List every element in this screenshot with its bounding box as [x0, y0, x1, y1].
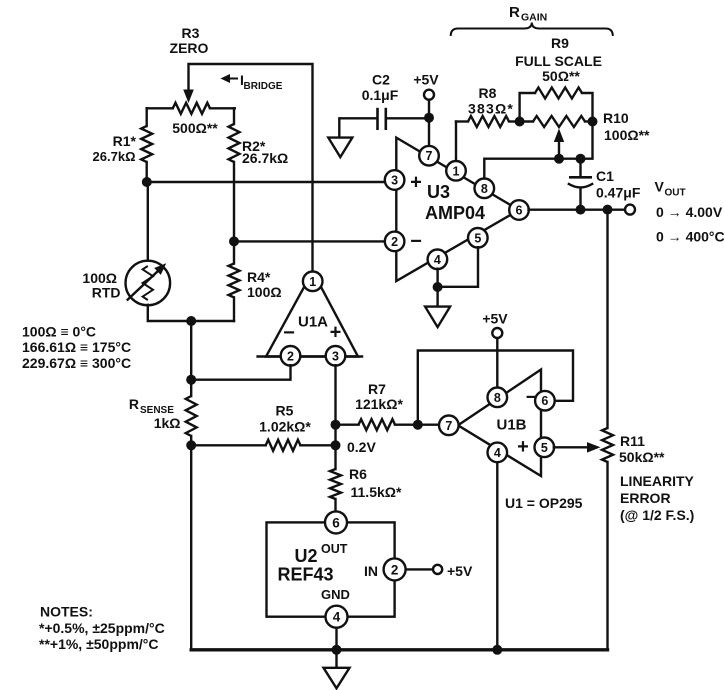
- junction bridge bottom: [186, 316, 196, 326]
- svg-text:R5: R5: [276, 403, 294, 419]
- wire REF43 pin4 to rail: [335, 628, 337, 648]
- wire U1B pin5 to R11 wiper: [554, 446, 589, 448]
- svg-text:4: 4: [494, 446, 501, 460]
- I_BRIDGE arrow: [224, 78, 237, 80]
- svg-text:BRIDGE: BRIDGE: [244, 81, 283, 92]
- junction rail/REF43 gnd: [332, 645, 342, 655]
- svg-text:121kΩ*: 121kΩ*: [355, 396, 403, 412]
- svg-text:8: 8: [481, 182, 488, 196]
- svg-text:2: 2: [287, 349, 294, 363]
- resistor R2 26.7k: [229, 124, 240, 162]
- svg-text:0 → 400°C: 0 → 400°C: [656, 229, 725, 245]
- svg-text:ZERO: ZERO: [170, 40, 209, 56]
- svg-text:R3: R3: [182, 25, 200, 41]
- wire output node down to R11: [606, 210, 608, 428]
- svg-text:1: 1: [453, 164, 460, 178]
- svg-text:50kΩ**: 50kΩ**: [619, 449, 665, 465]
- wire R1 bottom to node: [145, 162, 147, 182]
- svg-text:U3: U3: [427, 182, 450, 202]
- svg-text:GAIN: GAIN: [521, 12, 547, 24]
- svg-text:RTD: RTD: [92, 285, 121, 301]
- svg-text:229.67Ω ≡ 300°C: 229.67Ω ≡ 300°C: [22, 355, 131, 371]
- svg-text:U1 = OP295: U1 = OP295: [505, 495, 583, 511]
- U1B pin 5: [535, 438, 555, 458]
- svg-text:R10: R10: [603, 110, 629, 126]
- wire pot-right to R2: [233, 108, 235, 124]
- svg-text:REF43: REF43: [277, 565, 333, 585]
- resistor R5 1.02k wire: [191, 444, 266, 446]
- capacitor C1 0.47uF: [568, 159, 593, 210]
- junction +5V/C2 node: [424, 113, 434, 123]
- svg-text:R9: R9: [551, 35, 569, 51]
- resistor R6 11.5k: [330, 469, 341, 499]
- svg-text:LINEARITY: LINEARITY: [620, 473, 695, 489]
- U3 pin 4: [428, 249, 448, 269]
- RGAIN curly brace: [451, 23, 613, 37]
- svg-text:383Ω*: 383Ω*: [468, 101, 514, 117]
- junction C1 bottom on output: [576, 205, 586, 215]
- wire U3 pin5 to gnd node: [439, 247, 478, 287]
- U3 pin 1: [446, 161, 466, 181]
- junction U1A pin2 node: [186, 375, 196, 385]
- U3 pin 8: [475, 179, 495, 199]
- svg-text:100Ω: 100Ω: [247, 284, 282, 300]
- wire R2 bottom through crossing to R4 node: [233, 162, 235, 264]
- svg-text:R6: R6: [349, 466, 367, 482]
- svg-text:166.61Ω ≡ 175°C: 166.61Ω ≡ 175°C: [22, 339, 131, 355]
- svg-text:OUT: OUT: [665, 188, 686, 199]
- wire R4 bottom: [233, 297, 235, 321]
- +5V terminal (U1B supply): [492, 328, 502, 338]
- R11 wiper arrow: [587, 442, 601, 453]
- svg-text:7: 7: [445, 419, 452, 433]
- svg-text:26.7kΩ: 26.7kΩ: [93, 149, 136, 164]
- svg-text:+5V: +5V: [447, 563, 473, 579]
- junction R11 top on output: [603, 205, 613, 215]
- svg-text:+5V: +5V: [413, 72, 439, 88]
- svg-text:NOTES:: NOTES:: [40, 604, 93, 620]
- U1B pin 7: [439, 416, 459, 436]
- svg-text:50Ω**: 50Ω**: [542, 68, 580, 84]
- svg-text:2: 2: [391, 235, 398, 249]
- ground C2: [328, 138, 352, 158]
- svg-text:(@ 1/2 F.S.): (@ 1/2 F.S.): [620, 507, 694, 523]
- svg-text:V: V: [655, 179, 665, 195]
- wire rail to ground symbol: [335, 650, 337, 668]
- wire bridge bottom down to Rsense: [190, 321, 192, 396]
- svg-text:26.7kΩ: 26.7kΩ: [242, 150, 288, 166]
- op-amp U3 AMP04 triangle: [396, 138, 519, 281]
- wire pot-left to R1: [145, 108, 147, 126]
- svg-text:1: 1: [309, 275, 316, 289]
- svg-text:R7: R7: [368, 381, 386, 397]
- U1B pin 4: [488, 443, 508, 463]
- U1A pin 1: [303, 272, 323, 292]
- U3 pin 7: [419, 146, 439, 166]
- resistor R5 zigzag: [266, 440, 301, 451]
- svg-text:R: R: [129, 396, 139, 412]
- U1A pin 3: [326, 346, 346, 366]
- svg-text:+: +: [330, 322, 342, 344]
- resistor R7 121k wire: [336, 424, 359, 426]
- wire ground rail (bottom): [191, 648, 607, 651]
- REF43 pin 6 OUT: [325, 511, 347, 533]
- svg-text:0.2V: 0.2V: [347, 439, 376, 455]
- svg-text:**+1%, ±50ppm/°C: **+1%, ±50ppm/°C: [39, 636, 159, 652]
- REF43 pin 2 IN: [384, 558, 406, 580]
- U1A base line: [258, 355, 362, 357]
- junction C1 top node: [576, 154, 586, 164]
- ground U3: [425, 307, 450, 328]
- svg-text:100Ω**: 100Ω**: [604, 127, 650, 143]
- svg-text:0.47μF: 0.47μF: [596, 185, 641, 201]
- RTD arrow head: [154, 263, 166, 275]
- wire U3 pin6 output: [529, 208, 626, 210]
- junction 0.2V node: [331, 440, 341, 450]
- junction R7/U1B pin7 node: [413, 420, 423, 430]
- potentiometer R3 500ohm: [147, 107, 173, 109]
- wire R3 wiper to U1A pin1 (top wire): [189, 64, 313, 271]
- svg-text:8: 8: [494, 391, 501, 405]
- wire REF43 pin2 to +5V: [406, 568, 433, 570]
- resistor R1 26.7k: [141, 126, 152, 162]
- svg-text:R1*: R1*: [113, 133, 137, 149]
- U3 pin 5: [468, 228, 488, 248]
- R10 wiper arrow: [558, 141, 560, 159]
- resistor R7 zigzag: [359, 419, 396, 430]
- junction R5 node: [186, 440, 196, 450]
- svg-text:6: 6: [332, 515, 340, 530]
- U3 pin 6: [509, 200, 529, 220]
- REF43 pin 4 GND: [326, 606, 348, 628]
- wire R6 to REF43 OUT: [334, 499, 336, 511]
- junction R8/R9/R10 left: [515, 117, 525, 127]
- svg-text:R4*: R4*: [247, 269, 271, 285]
- U1A pin 2: [281, 346, 301, 366]
- svg-text:U1A: U1A: [298, 314, 328, 331]
- junction wiper node: [554, 154, 564, 164]
- VOUT terminal: [625, 205, 635, 215]
- svg-text:5: 5: [474, 231, 481, 245]
- U2 REF43 box: [267, 522, 395, 616]
- svg-text:500Ω**: 500Ω**: [172, 120, 218, 136]
- wire R4 node to U3 pin2 (- input wire): [234, 240, 385, 242]
- wire U1A pin3 down to R6 node: [334, 365, 336, 469]
- +5V terminal (U3 supply): [424, 90, 434, 100]
- svg-text:1kΩ: 1kΩ: [154, 415, 181, 431]
- wire feedback U1B pin6 loop: [418, 351, 573, 425]
- junction R7 node: [331, 420, 341, 430]
- svg-text:R11: R11: [620, 433, 645, 449]
- junction pin4/pin5 gnd node: [433, 282, 443, 292]
- junction R9/R10 right: [588, 117, 598, 127]
- wire node A to U3 pin3 (+ input wire): [147, 181, 386, 183]
- svg-text:5: 5: [541, 441, 548, 455]
- svg-text:+5V: +5V: [482, 311, 508, 327]
- wire +5V to U3 pin7: [428, 100, 430, 147]
- svg-text:100Ω ≡ 0°C: 100Ω ≡ 0°C: [22, 324, 96, 340]
- svg-text:+: +: [410, 172, 422, 194]
- svg-text:AMP04: AMP04: [425, 203, 485, 223]
- junction R1/RTD node: [142, 177, 152, 187]
- resistor R4 100ohm: [229, 264, 240, 298]
- ground main: [324, 668, 350, 689]
- svg-text:3: 3: [391, 174, 398, 188]
- U1B pin 6: [535, 391, 555, 411]
- op-amp U1B triangle: [458, 370, 541, 477]
- wire U3 pin4 to ground: [436, 269, 438, 307]
- wire U1B pin4 to ground rail: [496, 462, 498, 650]
- wire U3 pin1 riser to R8: [455, 122, 457, 162]
- U3 pin 2: [385, 232, 405, 252]
- svg-text:−: −: [410, 231, 422, 253]
- svg-text:U2: U2: [294, 546, 317, 566]
- resistor R8 383ohm: [468, 116, 509, 127]
- op-amp U1A triangle: [266, 271, 358, 356]
- svg-text:GND: GND: [321, 587, 350, 602]
- svg-text:4: 4: [434, 253, 441, 267]
- capacitor C2 0.1uF: [339, 108, 429, 137]
- svg-text:OUT: OUT: [321, 542, 348, 556]
- svg-text:1.02kΩ*: 1.02kΩ*: [259, 419, 311, 435]
- U1B pin 8: [488, 388, 508, 408]
- svg-text:IN: IN: [364, 563, 378, 579]
- svg-text:*+0.5%, ±25ppm/°C: *+0.5%, ±25ppm/°C: [39, 620, 165, 636]
- svg-text:+: +: [517, 436, 529, 458]
- wire U1A pin2 to Rsense top node: [191, 365, 290, 380]
- wire +5V to U1B pin8: [496, 338, 498, 388]
- R3 wiper arrow (down): [183, 90, 194, 104]
- svg-text:ERROR: ERROR: [620, 490, 671, 506]
- svg-text:−: −: [283, 322, 295, 344]
- resistor R9 full scale 50 ohm: [520, 93, 535, 122]
- wire node to RTD top: [147, 182, 149, 261]
- svg-text:U1B: U1B: [496, 417, 526, 434]
- svg-text:4: 4: [333, 610, 341, 625]
- svg-text:6: 6: [541, 394, 548, 408]
- svg-text:6: 6: [516, 204, 523, 218]
- U3 pin 3: [385, 170, 405, 190]
- RTD 100ohm symbol: [126, 261, 171, 306]
- svg-text:2: 2: [391, 562, 399, 577]
- wire RTD bottom to bridge bottom: [148, 305, 234, 321]
- svg-text:C2: C2: [372, 72, 390, 88]
- potentiometer R11 50k: [602, 428, 613, 462]
- svg-text:C1: C1: [596, 168, 614, 184]
- svg-text:11.5kΩ*: 11.5kΩ*: [351, 484, 402, 500]
- wire Rsense bottom to rail: [190, 436, 192, 650]
- +5V terminal (REF43): [433, 565, 442, 574]
- resistor RSENSE 1k: [186, 396, 197, 436]
- potentiometer R10 100 ohm: [520, 120, 533, 122]
- svg-text:0 → 4.00V: 0 → 4.00V: [656, 204, 723, 220]
- junction rail/U1B pin4: [492, 645, 502, 655]
- wire U3 pin8 riser to feedback wire: [484, 159, 580, 179]
- svg-text:R8: R8: [479, 85, 497, 101]
- svg-text:3: 3: [332, 349, 339, 363]
- svg-text:7: 7: [426, 149, 433, 163]
- junction R2/R4 node: [229, 236, 239, 246]
- svg-text:R: R: [509, 4, 520, 21]
- svg-text:0.1μF: 0.1μF: [362, 87, 399, 103]
- wire R10 right down to feedback node: [581, 122, 593, 159]
- svg-text:FULL SCALE: FULL SCALE: [515, 53, 602, 69]
- wire R11 bottom to rail: [606, 462, 608, 650]
